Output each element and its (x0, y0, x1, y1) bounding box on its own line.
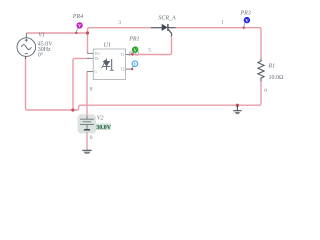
svg-text:1: 1 (221, 20, 224, 26)
svg-text:PR1: PR1 (128, 37, 139, 43)
svg-text:3: 3 (118, 20, 121, 26)
svg-text:G: G (94, 70, 97, 74)
svg-text:T1: T1 (121, 53, 125, 57)
svg-text:0: 0 (90, 135, 93, 141)
svg-text:U1: U1 (104, 43, 111, 49)
svg-text:0°: 0° (38, 52, 44, 59)
svg-text:PR4: PR4 (72, 13, 83, 20)
svg-text:5: 5 (148, 48, 151, 54)
svg-text:10.0Ω: 10.0Ω (269, 75, 285, 81)
svg-text:R1: R1 (268, 64, 276, 70)
svg-text:PR3: PR3 (240, 11, 251, 17)
svg-text:0: 0 (264, 88, 267, 94)
svg-text:SCR_A: SCR_A (158, 16, 176, 22)
svg-text:8: 8 (90, 86, 93, 92)
svg-text:T2: T2 (121, 67, 125, 71)
svg-text:TS+: TS+ (94, 52, 100, 56)
svg-text:TS-: TS- (94, 57, 100, 61)
svg-text:V: V (133, 61, 136, 66)
svg-text:30.0V: 30.0V (96, 125, 112, 131)
svg-text:V1: V1 (38, 32, 45, 38)
svg-text:V2: V2 (97, 116, 104, 122)
